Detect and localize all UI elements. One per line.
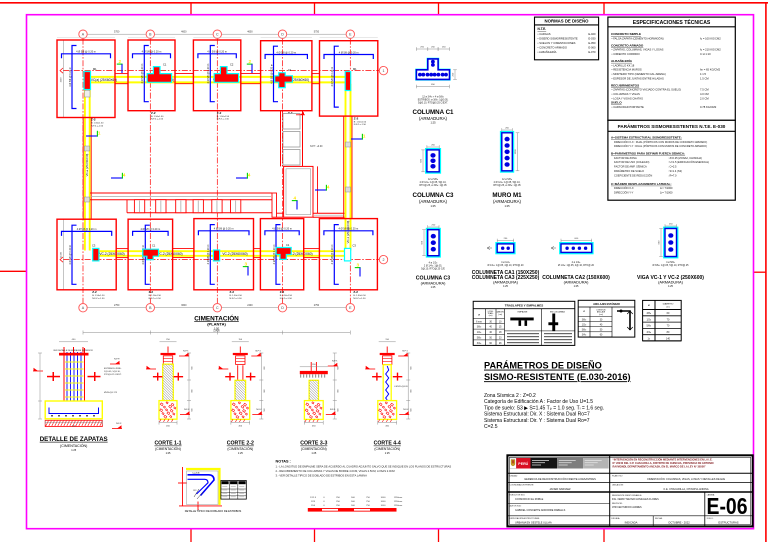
svg-text:11340: 11340	[61, 251, 63, 258]
rebar vertical zapata E-1	[334, 46, 339, 107]
lateral tie bars	[225, 376, 235, 377]
svg-text:Ø 1/4»: 1@.05, 4@.10, RTO@.20: Ø 1/4»: 1@.05, 4@.10, RTO@.20	[558, 264, 595, 267]
outer red border top	[0, 2, 768, 4]
svg-text:2750: 2750	[314, 304, 320, 307]
rebar horizontal zapata D-2	[265, 231, 299, 236]
rebar horizontal zapata C-1	[198, 54, 236, 59]
svg-text:M1: M1	[353, 67, 357, 71]
svg-text:FACTOR DE AMP. SÍSMICA: FACTOR DE AMP. SÍSMICA	[614, 165, 647, 169]
corte dimension line	[334, 353, 336, 419]
svg-text:4 Ø 5/8 @ 0.20 m: 4 Ø 5/8 @ 0.20 m	[140, 228, 160, 231]
svg-text:Ø 1/4»: 1@.05, 4@.10, RTO@.20: Ø 1/4»: 1@.05, 4@.10, RTO@.20	[487, 264, 524, 267]
svg-text:1000: 1000	[515, 149, 517, 155]
zapata Z-2 (E-2)	[319, 219, 377, 290]
vertical rebar detalle	[66, 352, 68, 413]
svg-text:N.P.T.: N.P.T.	[183, 350, 189, 352]
svg-text:: R=7.0: : R=7.0	[668, 173, 677, 177]
svg-text:1:25: 1:25	[668, 285, 673, 288]
svg-text:4 Ø 5/8 @ 0.20 m: 4 Ø 5/8 @ 0.20 m	[272, 228, 292, 231]
svg-text:• CARGAS: • CARGAS	[538, 32, 551, 36]
svg-text:DETALLE TÍPICO DE DOBLADO DE E: DETALLE TÍPICO DE DOBLADO DE ESTRIBOS	[185, 509, 242, 513]
svg-text:DIÁMETRO: DIÁMETRO	[663, 302, 674, 305]
wall tooth	[212, 200, 222, 213]
level flag	[180, 414, 190, 416]
svg-text:4 Ø 5/8 @ 0.20 m: 4 Ø 5/8 @ 0.20 m	[331, 245, 334, 265]
svg-text:fc = 100 KG/CM2: fc = 100 KG/CM2	[700, 36, 721, 40]
svg-text:ING. FERDY MEYER GONZALES FLOR: ING. FERDY MEYER GONZALES FLORES	[612, 498, 659, 501]
level flag	[328, 365, 338, 367]
svg-text:• ZAPATAS, COLUMNAS, VIGAS Y L: • ZAPATAS, COLUMNAS, VIGAS Y LOSAS	[612, 48, 664, 52]
svg-text:5@0.10, RTO@0.25 C/EXT.: 5@0.10, RTO@0.25 C/EXT.	[418, 102, 448, 105]
svg-text:CORTE 4-4: CORTE 4-4	[374, 441, 401, 447]
tie bars detalle	[47, 376, 60, 378]
svg-text:B: 1.50x1.50: B: 1.50x1.50	[353, 295, 366, 297]
svg-text:VC-2 (25X60X60): VC-2 (25X60X60)	[222, 252, 247, 256]
svg-text:CORTE 3-3: CORTE 3-3	[300, 441, 327, 447]
svg-text:1:25: 1:25	[238, 452, 243, 455]
svg-text:Z-2: Z-2	[151, 111, 156, 115]
svg-text:• RESISTENCIA MUROS: • RESISTENCIA MUROS	[612, 68, 642, 72]
grid bubble 1 right	[379, 66, 387, 74]
level flag	[33, 370, 43, 372]
dim top detalle	[59, 341, 88, 343]
bottom rebar detalle	[49, 408, 99, 414]
viga VC-2 bottom: yellow chords	[95, 250, 346, 252]
fold tick right	[754, 271, 766, 273]
room below stair	[284, 166, 313, 217]
columna M1 (E-1)	[345, 72, 351, 91]
svg-text:B=PARÁMETROS PARA DEFINIR FUER: B=PARÁMETROS PARA DEFINIR FUERZA SÍSMICA…	[611, 151, 685, 156]
tabla diametros	[643, 300, 682, 340]
svg-text:E-06: E-06	[707, 493, 748, 519]
svg-text:Z-2: Z-2	[230, 290, 235, 294]
svg-text:AUTOR N16:: AUTOR N16:	[510, 505, 522, 508]
svg-text:VER DETALLE DE EMPALME SUPERIO: VER DETALLE DE EMPALME SUPERIOR	[53, 349, 93, 352]
svg-text:C:H 1:10: C:H 1:10	[700, 52, 711, 56]
svg-text:1:25: 1:25	[504, 204, 510, 208]
rebar horizontal zapata E-1	[324, 55, 373, 60]
svg-text:0.78 KG/CM2: 0.78 KG/CM2	[700, 105, 717, 109]
svg-text:M1: M1	[93, 67, 97, 71]
svg-text:C1: C1	[286, 243, 290, 247]
svg-text:ESCALA:: ESCALA:	[612, 517, 621, 520]
caja PARAMETROS SISMORESISTENTES	[608, 120, 735, 200]
svg-text:6 mm: 6 mm	[476, 321, 482, 323]
footing bottom dim	[45, 422, 102, 424]
grid line E	[349, 39, 351, 304]
corte top bar assembly	[167, 347, 169, 353]
svg-text:• ESPESOR DE JUNTAS ENTRE HILA: • ESPESOR DE JUNTAS ENTRE HILADAS	[612, 76, 664, 80]
svg-text:Tipo de suelo: S3 ▶ S=1.45 T: Tipo de suelo: S3 ▶ S=1.45 Tₚ = 1.0 seg.…	[484, 405, 604, 411]
dimension line left of plan	[63, 40, 65, 118]
fold ticks top	[190, 3, 192, 15]
svg-text:1:25: 1:25	[430, 204, 436, 208]
svg-text:N.F.Z.=-1.50: N.F.Z.=-1.50	[217, 119, 230, 121]
svg-text:1/2»: 1/2»	[477, 332, 482, 334]
fold ticks bottom	[190, 529, 192, 542]
svg-text:TRASLAPES Y EMPALMES: TRASLAPES Y EMPALMES	[505, 303, 544, 307]
svg-text:C.E. CHACARILLA, CHINCHA-ANDIN: C.E. CHACARILLA, CHINCHA-ANDINA	[663, 487, 708, 491]
svg-text:EMPALME: EMPALME	[518, 310, 528, 313]
svg-text:VC-2 (25X60X60): VC-2 (25X60X60)	[157, 252, 182, 256]
svg-text:UNIDAD:: UNIDAD:	[510, 474, 519, 477]
castellated corridor wall	[90, 192, 272, 194]
svg-text:Z-2: Z-2	[149, 290, 154, 294]
svg-text:E-070: E-070	[588, 50, 596, 54]
svg-text:N.F.Z.=-1.50: N.F.Z.=-1.50	[354, 124, 367, 126]
columna C1 (B-2)	[143, 249, 159, 259]
dim left detalle	[39, 353, 41, 419]
svg-text:1:25: 1:25	[166, 452, 171, 455]
svg-text:4: 4	[123, 173, 126, 178]
svg-text:RTO@.25, ø 3/8»: 1@.05: RTO@.25, ø 3/8»: 1@.05	[493, 184, 521, 187]
svg-text:3: 3	[357, 263, 360, 268]
stair cell	[283, 132, 300, 148]
svg-text:fc = 210 KG/CM2: fc = 210 KG/CM2	[700, 48, 721, 52]
zapata Z-2 (C-2)	[194, 219, 254, 290]
top bar detalle	[59, 353, 89, 356]
column hatch	[163, 398, 166, 401]
svg-text:UBICACIÓN:: UBICACIÓN:	[612, 484, 624, 487]
svg-text:C=2.5: C=2.5	[484, 424, 498, 430]
level flag	[252, 414, 262, 416]
svg-text:B: 1.50x1.50: B: 1.50x1.50	[230, 295, 243, 297]
title block dividers	[609, 455, 611, 526]
corte dimension line	[188, 353, 190, 419]
grid line 2	[63, 259, 379, 261]
title block frame	[507, 455, 752, 526]
svg-text:C3: C3	[353, 244, 357, 248]
svg-text:N.F.P.: N.F.P.	[114, 358, 120, 360]
svg-text:RTO@0.25 C/EXT.: RTO@0.25 C/EXT.	[104, 374, 122, 376]
grid dimension line top	[83, 33, 350, 35]
svg-text:1250mm: 1250mm	[394, 497, 403, 499]
svg-text:(ARMADURA): (ARMADURA)	[564, 280, 590, 285]
grid dimension line bottom	[83, 307, 350, 309]
svg-text:C2: C2	[230, 62, 234, 66]
svg-text:4 Ø1/2»@0.20: 4 Ø1/2»@0.20	[394, 386, 408, 388]
svg-text:N.P.T.: N.P.T.	[332, 360, 338, 362]
svg-text:C1: C1	[163, 62, 167, 66]
svg-text:(PLANTA): (PLANTA)	[207, 322, 226, 327]
svg-text:4: 4	[248, 173, 251, 178]
zapata Z-2 (E-1)	[320, 41, 378, 116]
svg-text:1: 1	[363, 134, 366, 139]
svg-text:1000: 1000	[381, 497, 387, 499]
svg-text:2.- RECUBRIMIENTO DE COLUMNAS: 2.- RECUBRIMIENTO DE COLUMNAS Y VIGAS DE…	[276, 469, 396, 473]
svg-text:EN COLUMNAS: EN COLUMNAS	[550, 310, 565, 313]
svg-text:1000: 1000	[381, 505, 387, 507]
fold tick left	[0, 270, 27, 272]
svg-text:(CIMENTACIÓN): (CIMENTACIÓN)	[227, 446, 253, 451]
svg-text:OCTUBRE - 2022: OCTUBRE - 2022	[668, 521, 690, 525]
svg-text:ø: ø	[478, 313, 480, 317]
svg-text:5@.10, RTO@.20 C/E: 5@.10, RTO@.20 C/E	[421, 268, 445, 271]
wall right corner	[272, 193, 277, 217]
tabla TRASLAPES Y EMPALMES	[473, 301, 575, 345]
rebar vertical zapata C-2	[210, 225, 215, 285]
gridline D over shaft	[282, 111, 284, 166]
svg-text:ø: ø	[648, 303, 650, 307]
svg-text:ANCLAJES ESTÁNDAR: ANCLAJES ESTÁNDAR	[593, 303, 620, 306]
svg-text:URBANIA EN GESTELE ULLIAA: URBANIA EN GESTELE ULLIAA	[515, 521, 552, 524]
svg-text:RESIDENTE RESPONSABLE:: RESIDENTE RESPONSABLE:	[612, 494, 642, 497]
svg-text:2: 2	[383, 258, 385, 262]
caja NORMAS DE DISENO	[535, 17, 599, 60]
svg-text:VC-a (25X60X60): VC-a (25X60X60)	[85, 154, 89, 177]
svg-text:3.- VER DETALLE TIPICO DE DOBL: 3.- VER DETALLE TIPICO DE DOBLADO DE EST…	[276, 473, 368, 477]
svg-text:Z-2: Z-2	[354, 116, 359, 120]
svg-text:1:50: 1:50	[214, 326, 220, 330]
svg-text:1:25: 1:25	[385, 452, 390, 455]
svg-text:1@0.05, 5@0.10,: 1@0.05, 5@0.10,	[104, 371, 121, 373]
wall room to VC-1	[313, 212, 345, 214]
svg-text:fm = 65 KG/CM2: fm = 65 KG/CM2	[700, 68, 721, 72]
DETALLE DE ZAPATAS	[63, 348, 65, 401]
level flag	[218, 368, 228, 370]
svg-text:(ARMADURA): (ARMADURA)	[419, 116, 448, 121]
svg-text:CORTE 2-2: CORTE 2-2	[227, 441, 254, 447]
svg-text:• MORTERO TIPO (CEMENTO:CAL:AR: • MORTERO TIPO (CEMENTO:CAL:ARENA)	[612, 72, 666, 76]
svg-text:B: 1.50x1.50: B: 1.50x1.50	[151, 116, 164, 118]
svg-text:GABRIEL CONCEPTE ANDORRE RABEL: GABRIEL CONCEPTE ANDORRE RABELLS	[515, 509, 566, 512]
svg-text:Δ = 7/1000: Δ = 7/1000	[660, 190, 673, 194]
rebar horizontal zapata A-1	[62, 54, 111, 59]
svg-text:A=SISTEMA ESTRUCTURAL SISMORES: A=SISTEMA ESTRUCTURAL SISMORESISTENTE:	[611, 136, 682, 140]
svg-text:Sistema Estructural: Dir. Y :: Sistema Estructural: Dir. Y : Sistema Du…	[484, 418, 590, 424]
zapata Z-2 (B-1)	[128, 40, 175, 111]
svg-text:• CONCRETO ARMADO: • CONCRETO ARMADO	[538, 46, 567, 50]
svg-text:1250mm: 1250mm	[394, 505, 403, 507]
svg-text:3: 3	[245, 262, 248, 267]
grid line A	[82, 39, 84, 304]
svg-text:1.- LA LONGITUD DE EMPALME SER: 1.- LA LONGITUD DE EMPALME SERA DE ACUER…	[276, 465, 452, 469]
svg-text:B: 1.50x1.50: B: 1.50x1.50	[354, 121, 367, 123]
svg-text:GANCHO: GANCHO	[496, 311, 504, 314]
footing rubble hatch	[160, 403, 163, 406]
svg-text:• CIMIENTO CORRIDO: • CIMIENTO CORRIDO	[612, 52, 640, 56]
wall tooth	[231, 200, 241, 213]
svg-text:(cm): (cm)	[599, 314, 603, 316]
svg-text:JAVIER NARVAEZ: JAVIER NARVAEZ	[549, 487, 571, 491]
svg-text:(ARMADURA): (ARMADURA)	[421, 280, 447, 285]
svg-text:B: 1.50x1.50: B: 1.50x1.50	[91, 123, 104, 125]
viga VC-a left vertical: yellow chords	[84, 84, 86, 251]
svg-text:PERÚ: PERÚ	[518, 461, 528, 466]
footing rubble hatch	[379, 403, 382, 406]
svg-text:Z-2: Z-2	[217, 111, 222, 115]
zapata Z-2 (C-1)	[193, 40, 240, 111]
svg-text:NOTAS :: NOTAS :	[276, 460, 291, 464]
svg-text:: S=1.4 (S3): : S=1.4 (S3)	[668, 169, 682, 173]
lateral tie bars	[153, 376, 163, 377]
grid bubble C bottom	[213, 304, 221, 312]
estribos table	[221, 481, 246, 500]
svg-text:4 Ø 5/8 @ 0.20 m: 4 Ø 5/8 @ 0.20 m	[76, 51, 96, 54]
rebar vertical zapata D-2	[276, 225, 281, 285]
svg-text:7.5 CM: 7.5 CM	[700, 88, 709, 92]
svg-text:• COLUMNAS Y VIGAS: • COLUMNAS Y VIGAS	[612, 92, 641, 96]
svg-text:B: 1.50x1.50: B: 1.50x1.50	[280, 295, 293, 297]
svg-text:4 Ø 5/8 @ 0.20 m: 4 Ø 5/8 @ 0.20 m	[77, 228, 97, 231]
svg-text:N.P.T. +0.00: N.P.T. +0.00	[310, 146, 323, 148]
svg-text:3/8»: 3/8»	[477, 327, 482, 329]
cross-section body	[496, 243, 515, 254]
detalle COLUMNA C1	[416, 59, 449, 80]
svg-text:N.P.T.: N.P.T.	[255, 350, 261, 352]
svg-text:FOLIO:: FOLIO:	[707, 518, 714, 520]
svg-text:E-060: E-060	[588, 46, 596, 50]
rebar vertical zapata D-1	[274, 46, 279, 101]
cross-section body	[427, 229, 441, 257]
svg-text:N.F.Z.: N.F.Z.	[184, 409, 190, 411]
grid line C	[216, 39, 218, 304]
outer red border right	[765, 3, 767, 542]
svg-text:1/12.5: 1/12.5	[310, 497, 317, 499]
grid bubble C top	[213, 30, 221, 38]
svg-text:Z-2: Z-2	[353, 290, 358, 294]
footing bottom dim	[159, 422, 177, 424]
grid bubble B top	[146, 30, 154, 38]
svg-text:(CIMENTACIÓN): (CIMENTACIÓN)	[155, 446, 181, 451]
grid bubble E bottom	[346, 304, 354, 312]
svg-text:4600: 4600	[181, 30, 187, 33]
rebar vertical zapata B-2	[145, 225, 150, 284]
svg-text:1:25: 1:25	[431, 286, 436, 289]
svg-text:Ø 3/8»: 1@.05, 5@.10, RTO@.25: Ø 3/8»: 1@.05, 5@.10, RTO@.25	[652, 264, 689, 267]
corte top bar assembly	[386, 347, 388, 353]
svg-text:N.F.Z.=-1.50: N.F.Z.=-1.50	[230, 298, 243, 300]
svg-text:Lg=6db: Lg=6db	[192, 473, 200, 475]
solado hatch strip	[45, 420, 102, 426]
svg-text:5/8»: 5/8»	[582, 330, 587, 332]
svg-text:N.F.Z.=-1.50: N.F.Z.=-1.50	[151, 119, 164, 121]
svg-text:4 Ø 5/8 @ 0.20 m: 4 Ø 5/8 @ 0.20 m	[331, 67, 334, 87]
wall tooth	[156, 200, 166, 213]
svg-text:PARÁMETROS DE DISEÑO: PARÁMETROS DE DISEÑO	[484, 360, 602, 371]
svg-text:E-020: E-020	[588, 32, 596, 36]
svg-text:5/8»: 5/8»	[646, 325, 651, 328]
rebar vertical zapata A-2	[72, 225, 77, 284]
svg-text:CONCRETO ARMADO: CONCRETO ARMADO	[611, 43, 644, 47]
stair cell	[283, 114, 300, 130]
svg-text:1: 1	[98, 131, 101, 136]
columna C3 (A-2)	[93, 248, 99, 261]
svg-text:MURO M1: MURO M1	[492, 192, 522, 199]
svg-text:N.F.Z.=-1.50: N.F.Z.=-1.50	[92, 298, 105, 300]
level flag	[110, 363, 120, 365]
rebar horizontal zapata D-1	[265, 55, 307, 60]
rebar horizontal zapata B-2	[133, 231, 169, 236]
svg-text:• ZAPATAS (CONCRETO VACIADO CO: • ZAPATAS (CONCRETO VACIADO CONTRA EL SU…	[612, 88, 682, 92]
zapata Z-2 (A-2)	[57, 219, 116, 290]
wall tooth	[176, 200, 186, 213]
svg-text:2400: 2400	[247, 304, 253, 307]
svg-text:• LADRILLO KK 18: • LADRILLO KK 18	[612, 63, 635, 67]
grid line B	[149, 39, 151, 304]
rebar horizontal zapata C-2	[198, 231, 249, 236]
svg-text:RTO@.25, ø 3/8»: 1@.05: RTO@.25, ø 3/8»: 1@.05	[419, 184, 447, 187]
svg-text:(ARMADURA): (ARMADURA)	[493, 280, 519, 285]
corte top bar assembly	[239, 347, 241, 353]
section marker 1	[351, 138, 363, 140]
section marker 4	[315, 189, 327, 191]
svg-text:4 Ø 5/8 @ 0.20 m: 4 Ø 5/8 @ 0.20 m	[141, 64, 144, 84]
columna C1 (D-2)	[276, 248, 291, 260]
tabla ANCLAJES	[578, 300, 635, 337]
svg-text:4 Ø 5/8 @ 0.20 m: 4 Ø 5/8 @ 0.20 m	[273, 245, 276, 265]
svg-text:D: D	[281, 33, 284, 37]
cross-section body	[560, 243, 593, 254]
svg-text:ESTRIBOS: Ø3/8»: ESTRIBOS: Ø3/8»	[104, 368, 122, 370]
section marker 1	[86, 135, 98, 137]
viga VC(a) red edges in gaps	[115, 73, 128, 75]
svg-text:1:25: 1:25	[574, 285, 579, 288]
svg-text:Z-2: Z-2	[92, 290, 97, 294]
viga VC-1 right vertical: yellow chords	[345, 84, 347, 251]
zapata Z-2 (D-1)	[261, 41, 312, 111]
rebar vertical zapata E-2	[334, 225, 339, 285]
svg-text:RAYMONDI, DEPARTAMENTO ANCASH,: RAYMONDI, DEPARTAMENTO ANCASH, EN EL MAR…	[613, 465, 707, 469]
svg-text:B: 1.50x1.50: B: 1.50x1.50	[92, 295, 105, 297]
footing rubble hatch	[232, 403, 235, 406]
svg-text:(ARMADURA): (ARMADURA)	[658, 280, 684, 285]
svg-text:Z-2: Z-2	[280, 290, 285, 294]
zapata Z-2 (B-2)	[128, 219, 173, 290]
svg-text:1:25: 1:25	[71, 449, 76, 452]
svg-text:(CIMENTACIÓN): (CIMENTACIÓN)	[374, 446, 400, 451]
svg-text:C: C	[216, 306, 219, 310]
svg-text:1000: 1000	[381, 501, 387, 503]
svg-text:Ø5/8»@0.175: Ø5/8»@0.175	[104, 392, 118, 394]
svg-text:ALBAÑILERÍA: ALBAÑILERÍA	[611, 58, 633, 63]
svg-text:(m): (m)	[667, 306, 670, 308]
svg-text:(ARMADURA): (ARMADURA)	[493, 199, 522, 204]
stair shaft	[280, 111, 282, 166]
svg-text:N.F.Z.: N.F.Z.	[330, 409, 336, 411]
svg-text:135°: 135°	[193, 490, 197, 492]
svg-text:Sistema Estructural: Dir. X :: Sistema Estructural: Dir. X : Sistema Du…	[484, 412, 590, 418]
svg-text:1600: 1600	[61, 77, 63, 83]
viga VC(a) top: yellow chords	[88, 76, 346, 78]
level flag	[399, 414, 409, 416]
svg-text:Δ = 7/1000: Δ = 7/1000	[660, 186, 673, 190]
svg-text:N.F.Z.=-1.50: N.F.Z.=-1.50	[353, 298, 366, 300]
svg-text:VC(a) (25X60X60): VC(a) (25X60X60)	[91, 78, 117, 82]
level flag	[146, 368, 156, 370]
svg-text:1.5 CM: 1.5 CM	[700, 76, 709, 80]
grid line 1	[63, 70, 379, 72]
svg-text:3/4»: 3/4»	[646, 331, 651, 334]
svg-text:(ARMADURA): (ARMADURA)	[419, 199, 448, 204]
svg-text:B: 1.50x1.50: B: 1.50x1.50	[217, 116, 230, 118]
svg-text:SISMO-RESISTENTE (E.030-2016): SISMO-RESISTENTE (E.030-2016)	[484, 372, 631, 382]
section marker 4	[111, 177, 123, 179]
svg-text:2.0 CM: 2.0 CM	[700, 96, 709, 100]
grid bubble E top	[346, 30, 354, 38]
footing bottom dim	[231, 422, 250, 424]
svg-text:: C=2.5: : C=2.5	[668, 165, 677, 169]
cross-section body	[501, 132, 514, 172]
svg-text:N° 22240 DEL C.P. CHACARILLA,: N° 22240 DEL C.P. CHACARILLA, DISTRITO D…	[613, 461, 714, 465]
column hatch	[235, 398, 238, 401]
svg-text:4 Ø 5/8 @ 0.20 m: 4 Ø 5/8 @ 0.20 m	[69, 67, 72, 87]
svg-text:4 Ø 5/8 @ 0.20 m: 4 Ø 5/8 @ 0.20 m	[270, 64, 273, 84]
svg-text:5750: 5750	[314, 30, 320, 33]
zapata Z-2 (D-2)	[260, 219, 303, 290]
rebar vertical zapata B-1	[144, 46, 149, 102]
svg-text:PLANO NO:: PLANO NO:	[612, 474, 623, 477]
